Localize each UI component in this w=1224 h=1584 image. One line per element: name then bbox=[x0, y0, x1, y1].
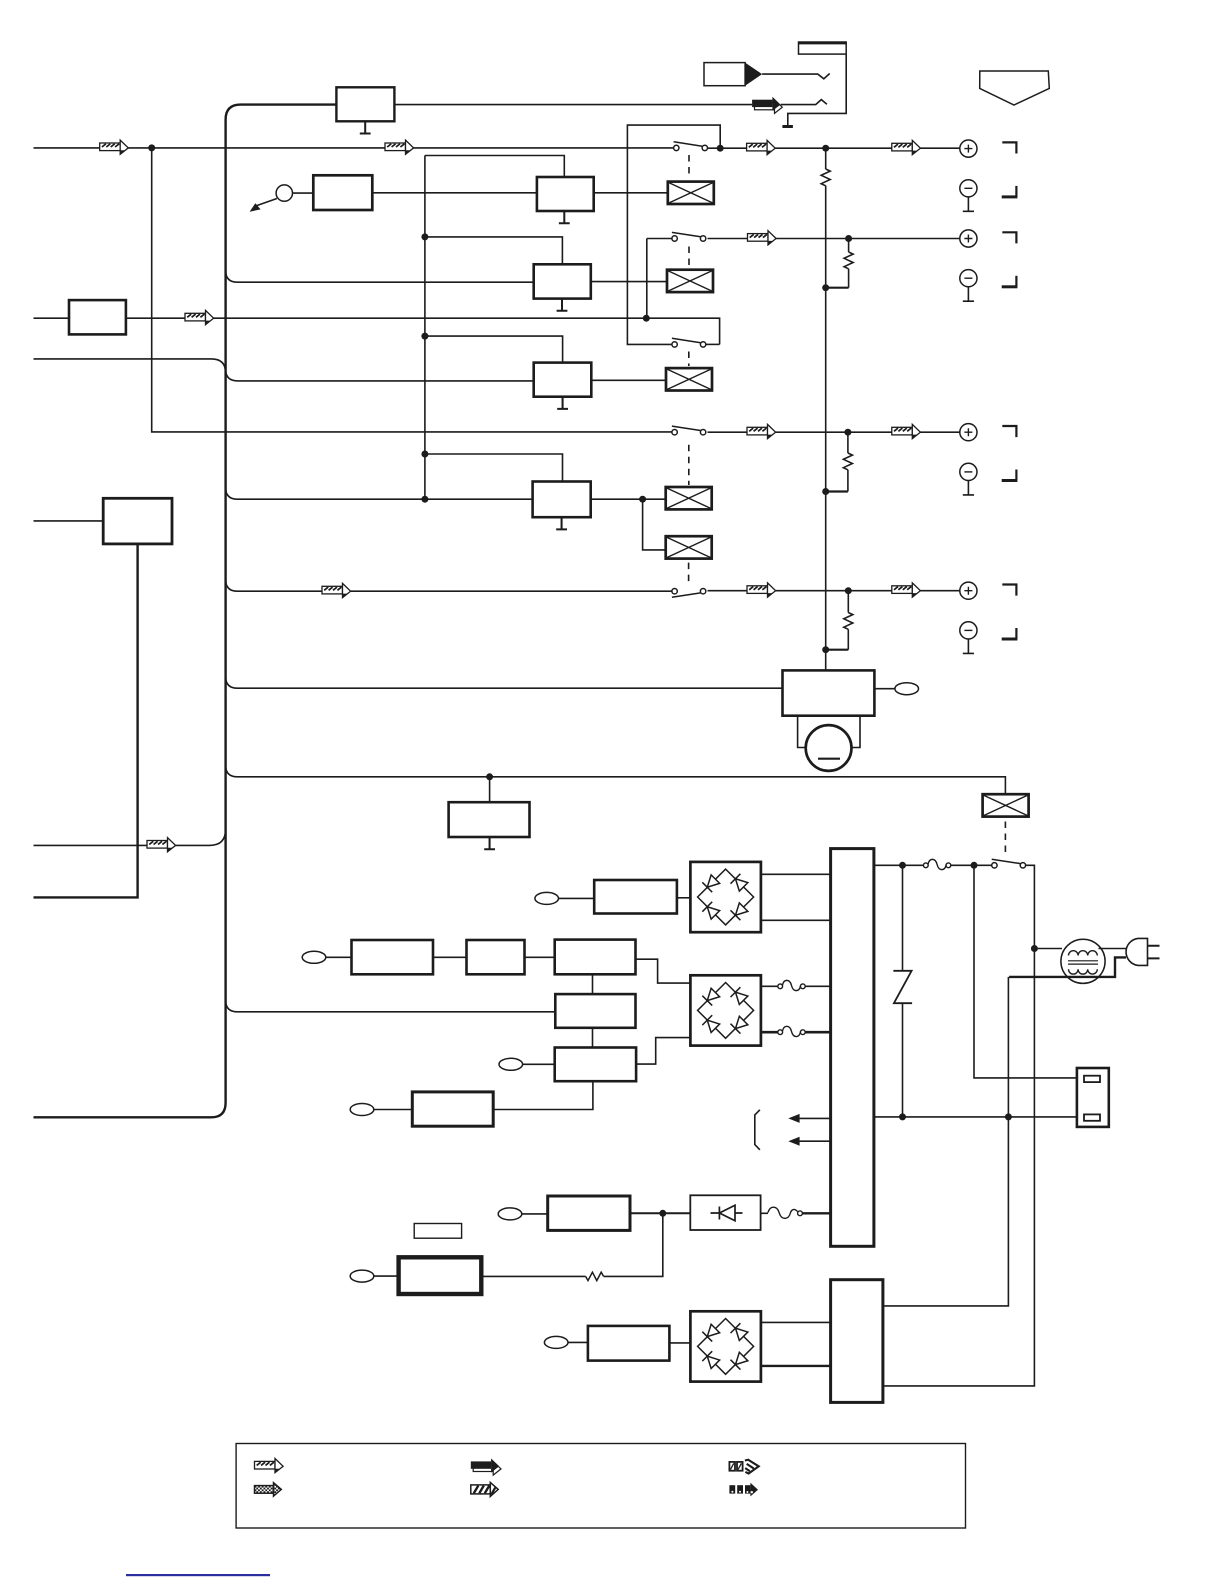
resistor bleed row5 bbox=[847, 591, 849, 613]
terminals speaker A right + / - bbox=[960, 140, 1018, 211]
resistor bleed row1 bbox=[825, 148, 827, 169]
headphone jack body bbox=[799, 42, 847, 54]
wire BR1 out top bbox=[761, 873, 831, 875]
wire row2 out bbox=[708, 238, 748, 240]
power transformer T1 bbox=[831, 849, 874, 1247]
wire: B4 out to RY2 bbox=[591, 281, 667, 283]
brace for DC outputs bbox=[755, 1110, 760, 1150]
wire: B5 out to RY3 bbox=[591, 379, 666, 381]
arrow row5 terminal bbox=[892, 583, 921, 597]
node row1 at bleed resistor bbox=[822, 145, 829, 152]
block B16 standby supply bbox=[412, 1092, 493, 1126]
wire: headphone feed line bbox=[394, 104, 752, 106]
block B5 driver ch3 bbox=[534, 363, 592, 397]
node filter top bbox=[1031, 945, 1038, 952]
wire BR3 bottom out bbox=[761, 1365, 831, 1367]
wire B15 to BR2 lower bbox=[636, 1038, 690, 1065]
ground of B1 bbox=[360, 121, 371, 133]
relay RY1 bbox=[668, 182, 714, 204]
node AC at transformer bbox=[899, 862, 906, 869]
wire: bus branch to B8 bbox=[226, 677, 783, 689]
low voltage transformer T3 bbox=[831, 1280, 883, 1403]
node row4 resistor bbox=[844, 429, 851, 436]
block B20 system control left bbox=[103, 498, 172, 544]
wire: input row 1 bbox=[34, 147, 674, 149]
wire: input joins bus lower bbox=[34, 829, 226, 845]
block B12 regulator 2 bbox=[467, 940, 525, 974]
wire row4 out bbox=[708, 431, 748, 433]
headphone plug symbol bbox=[704, 63, 745, 86]
block B4 driver ch2 bbox=[534, 264, 591, 298]
wire: common return vertical to protection block bbox=[825, 186, 827, 671]
node to B9 bbox=[486, 773, 493, 780]
dashed link S2-RY2 bbox=[688, 247, 690, 269]
fuse F4 bbox=[761, 1212, 768, 1214]
wire: row4 from row1 node bbox=[152, 148, 674, 432]
wire: transformer secondary to mains connector bbox=[874, 1116, 1084, 1118]
switch S4 bbox=[672, 426, 706, 435]
wire: switched AC line from bus to power relay bbox=[226, 765, 1006, 794]
switch S6 power bbox=[992, 859, 1026, 868]
switch S1 speaker A relay contact bbox=[674, 142, 708, 151]
wire: bus branch to B4 in bbox=[226, 271, 534, 283]
relay RY3 bbox=[666, 368, 712, 390]
bridge rectifier BR1 bbox=[690, 862, 761, 932]
node on return vertical bbox=[822, 284, 829, 291]
bridge rectifier BR3 bbox=[690, 1311, 761, 1381]
arrow in row1 left bbox=[100, 140, 129, 154]
dashed link RY6-S6 bbox=[1004, 822, 1006, 857]
wire: rail to B6 top bbox=[425, 454, 563, 482]
block B18 microprocessor (bold) bbox=[399, 1257, 482, 1294]
dashed link S4-RY4 bbox=[688, 445, 690, 485]
wire B19 to BR3 bbox=[669, 1342, 690, 1344]
block B19 standby regulator bbox=[588, 1326, 670, 1361]
connector CN2 AC input to rectifiers bbox=[535, 892, 559, 904]
dashed link S3-RY3 bbox=[688, 352, 690, 367]
block B2 trigger amp bbox=[313, 175, 372, 210]
wire row1 to terminal bbox=[775, 147, 960, 149]
wire: AC to CN6 pin1 bbox=[974, 865, 1084, 1078]
indicator circle (power meter) bbox=[806, 725, 852, 771]
wire BR1 out bottom bbox=[761, 919, 831, 921]
wire B17 out bbox=[630, 1212, 690, 1214]
ground of jack sleeve bbox=[782, 125, 793, 128]
resistor bleed row4 bbox=[847, 432, 849, 453]
block B8 protection-muting bbox=[783, 670, 875, 715]
wire: AC row bbox=[874, 864, 924, 866]
connector CN6 mains board bbox=[1077, 1068, 1109, 1127]
arrow row1 mid bbox=[385, 140, 414, 154]
switch S3 speaker B bbox=[672, 338, 706, 347]
arrow row4 terminal bbox=[892, 424, 921, 438]
link B14-B15 bbox=[592, 1028, 594, 1048]
legend arrow wide-hatch bbox=[471, 1482, 498, 1496]
wire: input joins bus (row below B7) bbox=[34, 359, 226, 373]
wire: bus branch to B5 in bbox=[226, 369, 534, 381]
wire: standby feedback with resistor bbox=[604, 1213, 663, 1276]
wire: B2 out to B3 in bbox=[372, 192, 537, 194]
wire: control rail to B3 top bbox=[425, 156, 564, 178]
legend box bbox=[236, 1444, 965, 1529]
node row1 / feed to row for speakers B bbox=[148, 144, 155, 151]
fuse F1 mains bbox=[923, 859, 950, 869]
ground of B6 bbox=[561, 517, 563, 529]
wire: input to B20 bbox=[34, 520, 104, 522]
wire B10 to BR1 bbox=[677, 897, 691, 899]
connector CN1 bbox=[895, 683, 919, 695]
block B1 headphone amp bbox=[336, 87, 394, 121]
remote sensor circle bbox=[276, 185, 292, 201]
speaker pentagon symbol bbox=[980, 71, 1050, 105]
wire: rail to B5 top bbox=[425, 336, 563, 363]
AC plug bbox=[1126, 938, 1147, 965]
wire: S6 out down to filter bbox=[883, 865, 1035, 1386]
wire: filter to plug neutral bbox=[1009, 957, 1126, 977]
block B11 regulator 1 bbox=[352, 940, 434, 974]
node row3 to S2 feed bbox=[643, 315, 650, 322]
arrow row4 out bbox=[747, 424, 776, 438]
wire: jack contact 2 with spring tip bbox=[781, 100, 827, 105]
node standby bbox=[659, 1210, 666, 1217]
connector CN5 bbox=[350, 1104, 374, 1116]
label box small bbox=[414, 1224, 461, 1239]
dashed link RY5-S5 bbox=[688, 563, 690, 586]
wire: feedback loop from row1 node to speaker B switch S3 bbox=[627, 125, 720, 344]
block B7 input buffer row3 bbox=[69, 300, 126, 334]
wire: B8 out to connector bbox=[874, 688, 895, 690]
wire: rail to B4 top bbox=[425, 237, 563, 264]
resistor bleed row2 bbox=[848, 239, 850, 253]
wire B13 to BR2 upper bbox=[636, 959, 691, 983]
wire BR3 top out bbox=[761, 1321, 831, 1323]
block B17 standby transformer drive bbox=[548, 1196, 630, 1230]
legend arrow solid-dotted bbox=[729, 1483, 758, 1497]
bridge rectifier BR2 bbox=[690, 975, 761, 1045]
block B13 dc-dc stage 1 bbox=[555, 940, 636, 975]
wire: bus branch row5 to S5 bbox=[226, 580, 672, 592]
wire row3 main bbox=[126, 318, 720, 344]
node row5 resistor bbox=[845, 587, 852, 594]
wire: switch S2 feed from row3 node bbox=[646, 239, 648, 319]
block B10 rectifier filter board bbox=[594, 880, 677, 914]
wire row5 out bbox=[708, 590, 748, 592]
wire: control rail vertical bbox=[424, 156, 426, 500]
connector CN4 bbox=[499, 1058, 523, 1070]
terminals speaker B left bbox=[960, 582, 1018, 653]
block B3 driver ch1 bbox=[537, 177, 594, 211]
connector CN3 bbox=[302, 951, 326, 963]
arrow DC output 1 bbox=[796, 1117, 830, 1119]
wire: bus branch to B6 in bbox=[226, 488, 533, 500]
arrow row1 terminal bbox=[892, 140, 921, 154]
wire: B3 out to RY1 bbox=[594, 192, 668, 194]
wire: filter to plug hot bbox=[1099, 948, 1127, 950]
wire: row1 after switch bbox=[708, 147, 747, 149]
ground of B9 bbox=[489, 837, 491, 850]
wire B16 up to B15 bbox=[493, 1081, 593, 1109]
diode box D1 bbox=[690, 1195, 760, 1230]
legend arrow solid bbox=[471, 1459, 501, 1476]
arrow on lower input bbox=[147, 838, 176, 852]
block B14 dc-dc stage 2 bbox=[555, 994, 635, 1028]
link B13-B14 bbox=[592, 974, 594, 994]
wire: B6 out to relays RY4 RY5 bbox=[591, 498, 666, 500]
meter yoke below B8 bbox=[798, 716, 807, 748]
resistor R horizontal bbox=[586, 1272, 604, 1280]
connector CN9 bbox=[544, 1336, 568, 1348]
legend arrow squares-hatch bbox=[729, 1460, 758, 1474]
arrow: signal flow (solid) on headphone line bbox=[752, 97, 782, 114]
fuse F3 bbox=[761, 1031, 778, 1034]
arrow row2 out bbox=[748, 231, 777, 245]
wire: AC to noise filter bbox=[1034, 948, 1062, 950]
legend arrow hatched-half bbox=[255, 1459, 284, 1473]
terminals speaker A left bbox=[960, 230, 1018, 301]
wire: B20 down to left edge (thick) bbox=[34, 544, 138, 898]
relay RY6 power bbox=[983, 794, 1029, 816]
arrow row5 in bbox=[322, 583, 351, 597]
arrow remote out bbox=[255, 199, 277, 207]
ground of B4 bbox=[561, 299, 563, 311]
ground of B5 bbox=[562, 397, 564, 409]
relay RY4 bbox=[666, 487, 712, 509]
wire: jack contact 1 bbox=[762, 74, 830, 79]
switch S5 (blade below) bbox=[672, 589, 706, 598]
block B9 system control bbox=[489, 777, 491, 802]
wire: pre-out bus (thick vertical trunk with rounded corners) bbox=[34, 105, 337, 1118]
wire: input row3 bbox=[34, 317, 70, 319]
link underline (blue) bbox=[126, 1574, 270, 1576]
relay RY5 bbox=[666, 536, 712, 558]
ground of B3 bbox=[559, 211, 570, 223]
breaker Z on transformer secondary bbox=[902, 865, 904, 971]
relay RY2 bbox=[667, 270, 713, 292]
node row2 resistor bbox=[845, 235, 852, 242]
legend arrow checkered bbox=[255, 1483, 282, 1496]
node AC at S6 bbox=[971, 862, 978, 869]
wire: neutral down to low voltage transformer bbox=[883, 977, 1009, 1306]
fuse F2 bbox=[761, 985, 778, 987]
arrow row3 bbox=[185, 310, 214, 324]
block B6 driver ch4 bbox=[533, 482, 591, 518]
wire: bus branch to B14 bbox=[226, 1000, 556, 1012]
connector CN7 bbox=[498, 1208, 522, 1220]
block B15 dc-dc stage 3 bbox=[555, 1048, 636, 1082]
noise filter transformer T2 bbox=[1061, 939, 1105, 983]
dashed link S1-RY1 bbox=[688, 155, 690, 179]
arrow row5 out bbox=[747, 583, 776, 597]
arrow row1 out bbox=[747, 140, 776, 154]
switch S2 bbox=[672, 232, 706, 241]
arrow DC output 2 bbox=[796, 1140, 830, 1142]
terminals speaker B right bbox=[960, 424, 1018, 495]
connector CN8 bbox=[350, 1270, 374, 1282]
